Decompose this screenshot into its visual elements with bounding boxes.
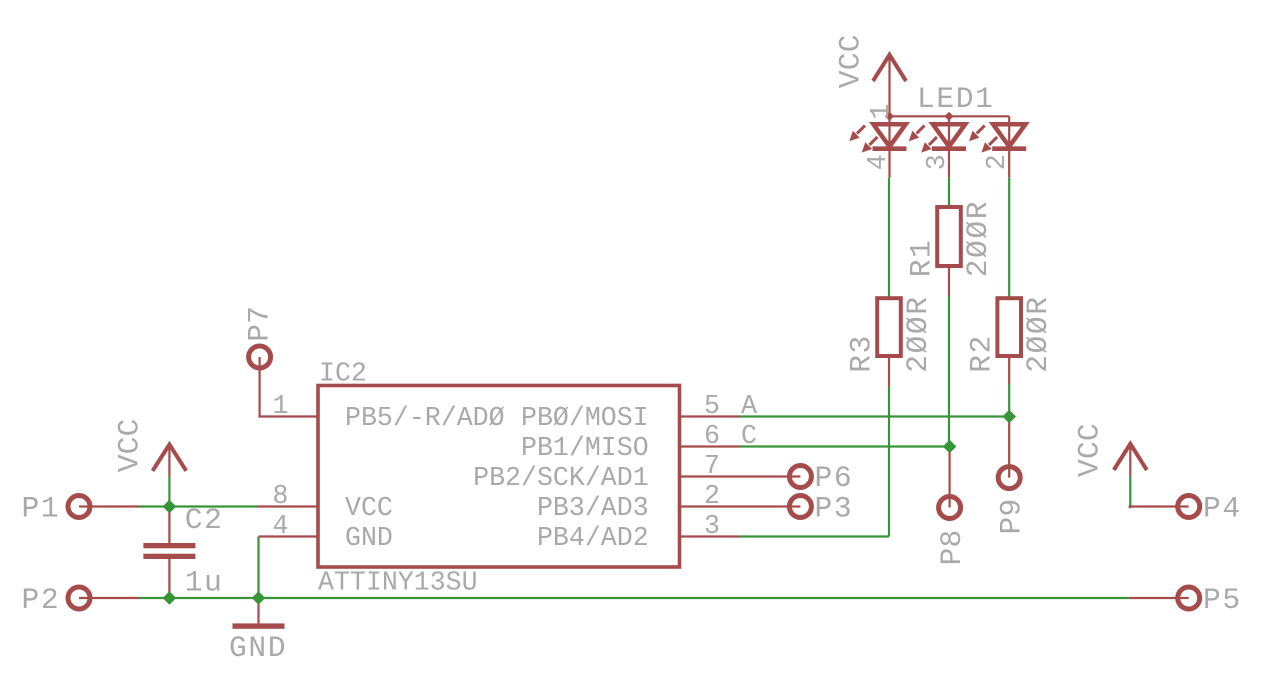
wire R2 bottom to net A xyxy=(1008,384,1010,417)
IC2 pin 1 PB5 stub xyxy=(258,391,318,421)
supply VCC right xyxy=(1072,423,1147,477)
svg-text:P7: P7 xyxy=(243,306,277,342)
pin P4 xyxy=(1129,492,1242,526)
svg-text:VCC: VCC xyxy=(345,493,393,523)
svg-text:ATTINY13SU: ATTINY13SU xyxy=(318,568,478,598)
wire LED C cathode to R2 xyxy=(1008,178,1010,298)
IC2 pin 7 stub xyxy=(680,451,740,481)
resistor R2 xyxy=(965,298,1022,384)
svg-text:PB3/AD3: PB3/AD3 xyxy=(537,493,649,523)
svg-text:P3: P3 xyxy=(815,492,854,526)
svg-text:2: 2 xyxy=(982,154,1012,170)
junction C2/GND net xyxy=(163,591,177,605)
LED1 element C emission arrows xyxy=(969,126,997,153)
IC2 pin 8 VCC stub xyxy=(258,481,318,511)
junction net A / P9 xyxy=(1002,410,1016,424)
junction GND symbol/IC pin4 xyxy=(252,591,266,605)
svg-text:5: 5 xyxy=(704,391,720,421)
svg-text:VCC: VCC xyxy=(834,34,868,88)
svg-text:P9: P9 xyxy=(995,499,1029,535)
svg-text:2ØØR: 2ØØR xyxy=(1021,295,1055,372)
wire net C: pin6 to R1 column xyxy=(740,445,950,447)
svg-text:4: 4 xyxy=(273,511,289,541)
IC2 box xyxy=(318,359,680,598)
pin P7 xyxy=(243,306,277,417)
svg-text:P1: P1 xyxy=(22,492,61,526)
svg-text:PB2/SCK/AD1: PB2/SCK/AD1 xyxy=(473,463,649,493)
junction bus at LED B xyxy=(944,112,953,121)
wire pin3 to R3 bottom xyxy=(740,386,890,536)
LED1 element B emission arrows xyxy=(909,126,937,153)
LED1 element B (middle) xyxy=(932,116,966,177)
wire VCC right symbol to P4 xyxy=(1129,477,1131,507)
svg-text:C2: C2 xyxy=(185,503,224,537)
IC2 pin 5 stub xyxy=(680,391,740,421)
IC2 pin name labels xyxy=(345,403,649,553)
svg-text:P8: P8 xyxy=(935,530,969,566)
svg-text:4: 4 xyxy=(863,154,893,170)
wire LED A cathode to R3 xyxy=(888,178,890,298)
pin P8 xyxy=(935,447,969,566)
svg-text:PB1/MISO: PB1/MISO xyxy=(521,433,649,463)
LED1 element A (left) xyxy=(873,116,907,177)
svg-text:6: 6 xyxy=(704,421,720,451)
IC2 pin 4 GND stub xyxy=(259,511,319,541)
svg-text:7: 7 xyxy=(704,451,720,481)
pin P2 xyxy=(22,583,140,617)
svg-text:PBØ/MOSI: PBØ/MOSI xyxy=(521,403,649,433)
svg-text:2ØØR: 2ØØR xyxy=(961,200,995,277)
svg-text:8: 8 xyxy=(273,481,289,511)
junction bus at LED A xyxy=(885,112,894,121)
svg-text:PB4/AD2: PB4/AD2 xyxy=(537,523,649,553)
svg-text:2: 2 xyxy=(704,481,720,511)
LED1 anode bus xyxy=(890,115,1010,117)
svg-text:P6: P6 xyxy=(815,461,854,495)
svg-text:P2: P2 xyxy=(22,583,61,617)
pin P6 xyxy=(740,461,854,495)
svg-text:GND: GND xyxy=(229,631,287,665)
svg-text:LED1: LED1 xyxy=(917,82,994,116)
wire IC pin4 to GND net xyxy=(257,537,259,599)
ground GND symbol xyxy=(229,598,287,665)
svg-text:3: 3 xyxy=(704,511,720,541)
svg-text:1u: 1u xyxy=(185,566,224,600)
supply VCC top xyxy=(834,34,907,116)
LED1 element C (right) xyxy=(992,116,1026,177)
svg-text:IC2: IC2 xyxy=(319,359,367,389)
pin P3 xyxy=(740,492,854,526)
svg-text:3: 3 xyxy=(922,154,952,170)
IC2 pin 6 stub xyxy=(680,421,740,451)
IC2 pin 2 stub xyxy=(680,481,740,511)
svg-text:PB5/-R/ADØ: PB5/-R/ADØ xyxy=(345,403,505,433)
svg-text:1: 1 xyxy=(866,104,896,120)
svg-text:R1: R1 xyxy=(905,239,939,278)
wire net VCC: P1 to IC pin8 xyxy=(139,505,258,507)
supply VCC left xyxy=(112,418,186,477)
svg-text:1: 1 xyxy=(273,391,289,421)
junction VCC/P1/C2 xyxy=(163,500,177,514)
svg-text:VCC: VCC xyxy=(1072,423,1106,477)
wire VCC symbol to P1 net xyxy=(168,477,170,507)
svg-text:VCC: VCC xyxy=(112,418,146,472)
svg-text:R3: R3 xyxy=(845,334,879,373)
wire net A: pin5 to R2 column xyxy=(740,415,1010,417)
wire R1 bottom to net C xyxy=(948,296,950,446)
pin P1 xyxy=(22,492,140,526)
svg-text:2ØØR: 2ØØR xyxy=(901,295,935,372)
resistor R1 xyxy=(905,207,961,296)
svg-text:P4: P4 xyxy=(1203,492,1242,526)
capacitor C2 xyxy=(143,503,223,598)
LED1 element A emission arrows xyxy=(849,126,877,153)
wire net GND: P2 to P5 xyxy=(139,597,1129,599)
svg-text:R2: R2 xyxy=(965,334,999,373)
pin P5 xyxy=(1129,583,1242,617)
resistor R3 xyxy=(845,298,901,386)
pin P9 xyxy=(995,417,1029,535)
junction net C / P8 xyxy=(943,440,957,454)
svg-text:P5: P5 xyxy=(1203,583,1242,617)
wire LED B cathode to R1 xyxy=(948,178,950,205)
svg-text:GND: GND xyxy=(345,523,393,553)
IC2 pin 3 stub xyxy=(680,511,740,541)
